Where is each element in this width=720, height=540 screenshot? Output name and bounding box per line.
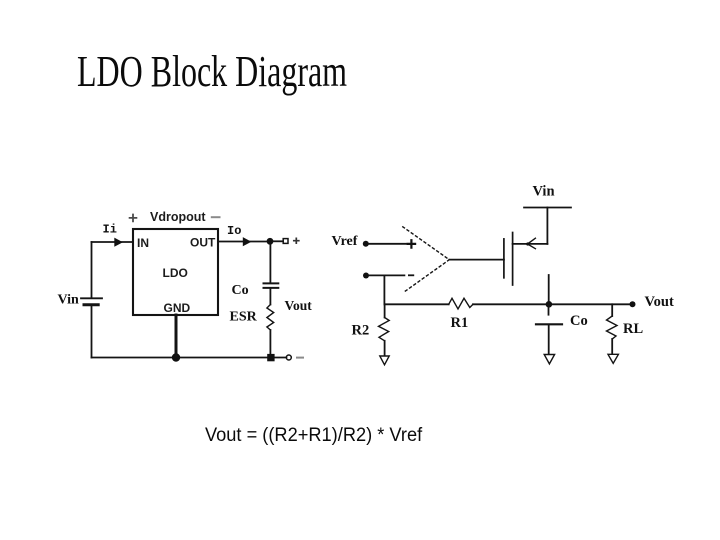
plus sign output terminal <box>294 238 299 243</box>
plus sign Vdropout <box>130 215 137 222</box>
wire drain <box>548 275 550 304</box>
arrow Ii <box>114 238 123 247</box>
wire op-amp output to gate <box>449 259 504 261</box>
wire inverting input <box>369 274 404 276</box>
resistor ESR zigzag <box>267 305 274 331</box>
op-amp U2 dashed edge bottom <box>403 260 450 293</box>
wire Vin drop <box>546 208 548 244</box>
svg-text:Vout: Vout <box>645 294 674 310</box>
wire RL to ground <box>611 339 613 353</box>
terminal circle minus <box>286 355 291 360</box>
svg-text:Vin: Vin <box>533 184 555 200</box>
minus sign Vdropout <box>212 216 220 218</box>
plus sign op-amp input <box>408 240 415 248</box>
wire Vin top <box>91 242 93 298</box>
capacitor Co plate bottom <box>264 287 279 289</box>
svg-text:OUT: OUT <box>190 236 216 250</box>
resistor R2 zigzag <box>379 318 390 341</box>
formula text <box>205 424 422 447</box>
wire node line left <box>384 303 448 305</box>
wire node down to Co <box>269 244 271 283</box>
arrow source <box>528 238 536 249</box>
terminal square minus <box>267 354 274 361</box>
wire Vin bottom <box>91 306 93 357</box>
resistor RL zigzag <box>607 316 618 339</box>
svg-text:Io: Io <box>227 224 241 238</box>
op-amp U2 dashed edge top <box>403 227 450 260</box>
ground RL <box>608 354 618 363</box>
wire node line right <box>473 303 630 305</box>
svg-text:IN: IN <box>137 236 149 250</box>
wire R2 stub <box>384 304 386 317</box>
wire RL stub <box>611 304 613 316</box>
svg-text:Vref: Vref <box>332 234 358 249</box>
wire R2 to ground <box>384 341 386 356</box>
junction node ground <box>172 353 180 361</box>
junction node output <box>267 238 274 245</box>
svg-text:Vout: Vout <box>285 298 313 313</box>
svg-text:R1: R1 <box>451 315 469 331</box>
battery V1 plate long <box>81 297 102 299</box>
wire Vref to op-amp <box>369 243 407 245</box>
svg-text:Co: Co <box>232 283 249 298</box>
title text <box>77 46 347 97</box>
LDO block U1 <box>133 229 218 315</box>
arrow Io <box>243 237 252 246</box>
wire Co2 to ground <box>548 325 550 354</box>
svg-text:LDO: LDO <box>163 266 188 280</box>
node inverting input dot <box>363 273 369 279</box>
junction node drain <box>546 301 553 308</box>
wire node to terminal <box>273 240 283 242</box>
wire bottom rail <box>92 357 287 359</box>
resistor R1 zigzag <box>449 298 473 309</box>
svg-text:Co: Co <box>570 313 588 329</box>
transistor Q1 channel bar <box>512 233 514 286</box>
wire feedback vertical <box>383 275 385 304</box>
node Vout dot <box>630 301 636 307</box>
terminal square plus <box>283 239 288 244</box>
ground Co2 <box>544 355 554 364</box>
minus sign op-amp input <box>409 274 413 276</box>
wire source <box>513 243 548 245</box>
wire GND stub <box>175 315 178 356</box>
wire node to Co2 <box>548 307 550 315</box>
transistor Q1 gate plate <box>503 239 505 278</box>
ground R2 <box>380 356 389 365</box>
wire input Ii horizontal <box>92 241 134 243</box>
wire Co to ESR <box>269 289 271 305</box>
capacitor Co plate top <box>264 282 279 284</box>
battery V1 plate short <box>84 303 98 306</box>
wire OUT horizontal <box>218 241 267 243</box>
svg-text:Ii: Ii <box>103 223 117 237</box>
node source arrow dot <box>526 242 529 245</box>
minus sign output terminal <box>297 357 303 359</box>
capacitor Co2 plate <box>536 323 562 325</box>
svg-text:GND: GND <box>164 301 191 315</box>
svg-text:R2: R2 <box>352 323 370 339</box>
wire Vin rail <box>524 207 571 209</box>
svg-text:Vdropout: Vdropout <box>150 210 206 224</box>
node Vref dot <box>363 241 369 247</box>
svg-text:Vin: Vin <box>58 292 79 307</box>
svg-text:ESR: ESR <box>230 310 258 325</box>
svg-text:RL: RL <box>623 321 643 337</box>
wire ESR to bottom rail <box>269 330 271 358</box>
